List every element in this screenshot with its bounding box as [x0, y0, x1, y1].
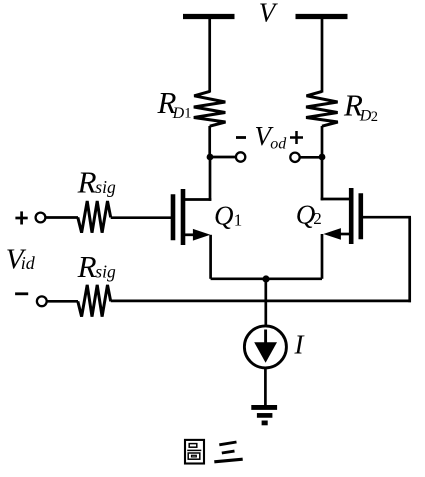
svg-text:V: V [259, 0, 279, 28]
svg-text:1: 1 [184, 105, 191, 121]
wire RD2 to drain node [321, 126, 324, 157]
node drain Q2 (junction dot) [319, 154, 326, 161]
wire RD1 to drain node [208, 126, 211, 157]
label Q1 [214, 201, 242, 231]
label Vid [6, 243, 36, 275]
label Rsig (bottom) [77, 249, 116, 284]
wire Rsig to gate Q1 [111, 216, 171, 219]
svg-text:R: R [77, 249, 97, 284]
transistor Q2 [321, 188, 361, 244]
caption glyph SAN (three) [214, 442, 242, 462]
wire left rail to RD1 [208, 19, 211, 93]
svg-text:D: D [172, 105, 185, 122]
node common source (junction dot) [262, 275, 269, 282]
resistor Rsig (bottom) [78, 285, 111, 317]
wire riser to gate Q2 [363, 216, 411, 219]
svg-text:sig: sig [95, 177, 116, 197]
wire right riser up [408, 217, 411, 302]
wire source join [211, 277, 322, 280]
node drain Q1 (junction dot) [207, 154, 214, 161]
svg-text:I: I [294, 329, 306, 359]
wire current source to ground [264, 368, 267, 406]
wire source Q1 down [209, 235, 212, 279]
wire source Q2 down [321, 234, 324, 279]
transistor Q1 [173, 189, 211, 245]
svg-text:1: 1 [234, 210, 243, 229]
label RD2 [343, 88, 378, 126]
wire right rail to RD2 [321, 19, 324, 93]
svg-text:2: 2 [371, 109, 378, 125]
resistor RD1 [194, 91, 226, 126]
svg-text:od: od [270, 136, 287, 153]
label - (input) [15, 292, 28, 295]
resistor RD2 [306, 91, 338, 126]
terminal input + (open circle) [36, 213, 46, 223]
terminal vod- (open circle) [236, 152, 245, 161]
wire drain Q2 [321, 157, 324, 200]
svg-text:Q: Q [214, 201, 234, 231]
supply rail left [183, 14, 235, 19]
wire drain Q1 [209, 157, 212, 201]
ground [251, 407, 277, 423]
label - Vod + [236, 121, 303, 153]
label RD1 [157, 85, 192, 122]
label Rsig (top) [77, 164, 116, 199]
wire right output terminal to node [300, 156, 322, 159]
current source I [244, 326, 286, 368]
wire input+ to Rsig [46, 216, 79, 219]
supply rail right [296, 14, 348, 19]
wire input- to Rsig [47, 300, 78, 303]
label + (input) [15, 211, 27, 224]
terminal vod+ (open circle) [290, 153, 299, 162]
svg-text:id: id [21, 253, 36, 273]
svg-text:2: 2 [313, 209, 322, 228]
svg-text:R: R [77, 164, 97, 199]
terminal input - (open circle) [37, 296, 47, 306]
svg-text:sig: sig [95, 261, 116, 281]
caption glyph TU (figure) [185, 440, 204, 464]
resistor Rsig (top) [78, 201, 111, 233]
wire node to left output terminal [210, 156, 236, 159]
wire Rsig to right riser (gate Q2 net) [111, 300, 411, 303]
label Q2 [296, 200, 322, 230]
wire tail down to current source [264, 279, 267, 327]
